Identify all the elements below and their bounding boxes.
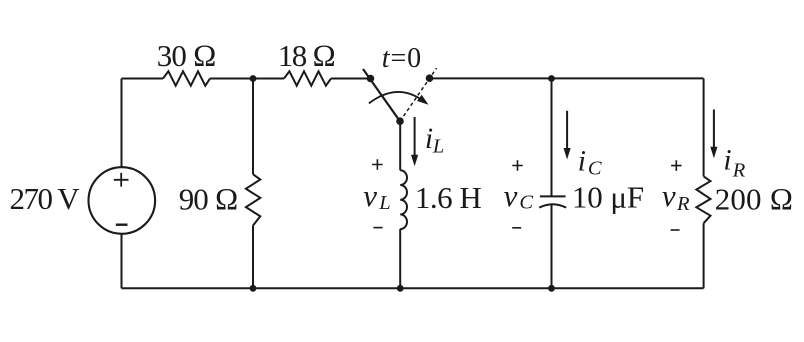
svg-text:v: v <box>662 178 676 213</box>
svg-text:i: i <box>425 123 433 155</box>
svg-text:C: C <box>588 157 602 179</box>
svg-text:R: R <box>676 193 690 215</box>
svg-text:L: L <box>432 135 444 157</box>
svg-text:R: R <box>732 159 746 181</box>
svg-text:18 Ω: 18 Ω <box>278 38 335 73</box>
svg-text:200 Ω: 200 Ω <box>715 182 794 217</box>
svg-text:L: L <box>378 192 390 214</box>
svg-text:10 μF: 10 μF <box>572 180 644 215</box>
svg-text:C: C <box>519 191 533 213</box>
svg-text:30 Ω: 30 Ω <box>157 38 216 73</box>
svg-text:i: i <box>578 145 586 177</box>
svg-text:t=0: t=0 <box>382 43 422 74</box>
svg-text:270 V: 270 V <box>10 181 81 216</box>
svg-text:i: i <box>723 145 731 177</box>
svg-text:v: v <box>504 178 518 213</box>
svg-text:v: v <box>363 178 377 213</box>
svg-text:90 Ω: 90 Ω <box>179 181 238 216</box>
svg-text:1.6 H: 1.6 H <box>415 180 482 215</box>
